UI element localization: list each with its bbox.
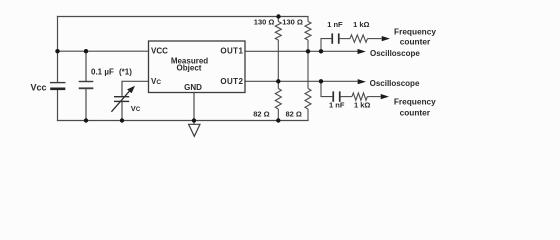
wire: varicap lower lead: [121, 102, 123, 121]
node: 82ohm#1 bottom rail junction: [276, 118, 280, 122]
wire: ground symbol stub: [193, 121, 195, 125]
svg-text:VC: VC: [131, 104, 141, 113]
resistor 130ohm #2 leads: [307, 17, 309, 22]
node: 0.1uF top junction: [84, 49, 88, 53]
node: OUT2/130ohm#1 junction: [276, 79, 280, 83]
node: varicap bottom rail junction: [120, 118, 124, 122]
wire: VC pin wire: [122, 81, 149, 96]
resistor 130ohm #1 zigzag: [275, 22, 281, 41]
node: 0.1uF bottom rail junction: [84, 118, 88, 122]
wire: left vertical lower segment: [57, 90, 59, 121]
svg-text:1 kΩ: 1 kΩ: [354, 101, 370, 110]
node: Vcc/left rail junction: [55, 49, 59, 53]
varicap VC: arrow head: [127, 86, 135, 94]
resistor 130ohm #1 leads: [277, 17, 279, 22]
wire: bottom 1kohm to arrow: [367, 96, 380, 98]
wire: Vcc feed to box: [58, 50, 149, 52]
resistor 82ohm #1 leads: [277, 81, 279, 88]
svg-text:VC: VC: [151, 77, 161, 86]
svg-text:82 Ω: 82 Ω: [286, 110, 302, 119]
wire: GND pin to rail: [193, 93, 195, 121]
arrow to top oscilloscope: [358, 49, 366, 54]
wire: 0.1uF cap upper lead: [85, 51, 87, 81]
wire: bottom ground rail: [58, 120, 309, 122]
svg-text:Frequency: Frequency: [394, 26, 436, 36]
wire: top Vcc rail: [58, 16, 309, 18]
varicap VC: bottom plate: [114, 101, 129, 102]
resistor 1kohm bottom zigzag: [352, 93, 367, 100]
svg-text:OUT2: OUT2: [220, 77, 243, 86]
measured object box U1: [149, 41, 246, 93]
capacitor 1nF top: left plate: [331, 33, 333, 43]
svg-text:Vcc: Vcc: [31, 83, 47, 93]
svg-text:Frequency: Frequency: [394, 96, 436, 106]
svg-text:Oscilloscope: Oscilloscope: [370, 79, 420, 88]
svg-text:GND: GND: [184, 83, 202, 92]
svg-text:(*1): (*1): [119, 68, 132, 77]
wire: OUT2 line: [245, 80, 358, 82]
arrow to bottom oscilloscope: [358, 79, 366, 84]
node: OUT2 branch tap: [319, 79, 323, 83]
svg-text:82 Ω: 82 Ω: [253, 110, 269, 119]
resistor 1kohm top zigzag: [350, 35, 368, 42]
wire: bottom 1nF to 1kohm: [341, 96, 352, 98]
svg-text:Object: Object: [177, 63, 202, 72]
wire: top 1kohm to arrow: [368, 38, 382, 40]
svg-text:counter: counter: [400, 107, 431, 117]
wire: OUT1 tap to 1nF top branch: [321, 39, 331, 52]
varicap VC: top plate: [114, 96, 129, 97]
capacitor 1nF bottom: left plate: [332, 91, 334, 101]
svg-text:130 Ω: 130 Ω: [254, 18, 275, 27]
svg-text:130 Ω: 130 Ω: [282, 18, 303, 27]
svg-text:0.1 µF: 0.1 µF: [91, 68, 114, 77]
varicap VC: arrow shaft: [111, 90, 130, 112]
node: 130ohm#1 top rail junction: [276, 14, 280, 18]
wire: 0.1uF cap lower lead: [85, 89, 87, 120]
arrow to bottom frequency counter: [381, 94, 389, 99]
capacitor Vcc bulk: top plate: [50, 82, 66, 83]
node: GND rail junction: [192, 118, 196, 122]
capacitor 1nF top: right plate: [338, 33, 340, 43]
node: OUT1 branch tap: [319, 49, 323, 53]
capacitor 0.1uF: top plate: [79, 81, 94, 82]
wire: left vertical upper segment: [57, 17, 59, 82]
svg-text:1 nF: 1 nF: [329, 101, 345, 110]
wire: OUT2 tap to 1nF bottom branch: [321, 81, 332, 96]
wire: top 1nF to 1kohm: [340, 38, 350, 40]
node: OUT1/130ohm#2 junction: [306, 49, 310, 53]
wire: OUT1 line: [245, 50, 358, 52]
svg-text:OUT1: OUT1: [220, 47, 243, 56]
svg-text:Oscilloscope: Oscilloscope: [370, 49, 420, 58]
svg-text:VCC: VCC: [151, 47, 168, 56]
capacitor Vcc bulk: bottom plate: [50, 88, 65, 91]
capacitor 0.1uF: bottom plate: [79, 87, 94, 89]
svg-text:1 kΩ: 1 kΩ: [353, 20, 369, 29]
resistor 82ohm #1 zigzag: [275, 89, 281, 110]
resistor 130ohm #2 zigzag: [305, 22, 311, 41]
resistor 82ohm #2 zigzag: [305, 89, 311, 110]
svg-text:counter: counter: [400, 37, 431, 47]
resistor 82ohm #2 leads: [307, 51, 309, 88]
svg-text:1 nF: 1 nF: [327, 20, 343, 29]
arrow to top frequency counter: [382, 36, 390, 41]
ground symbol: [189, 124, 200, 136]
capacitor 1nF bottom: right plate: [339, 91, 341, 101]
